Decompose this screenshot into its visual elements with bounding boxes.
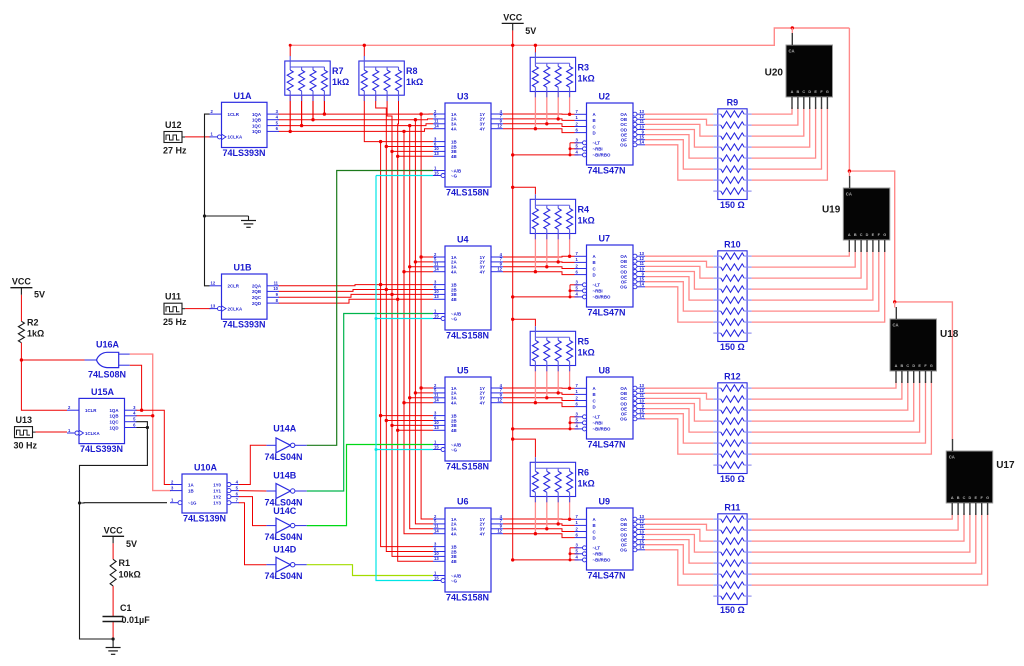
node B1 U3 tap bbox=[379, 140, 382, 143]
wire cyan ~G vertical bbox=[376, 176, 433, 581]
resistor pack R7 1k bbox=[285, 56, 349, 101]
svg-text:B: B bbox=[593, 523, 596, 528]
node B1 branch U5 bbox=[379, 414, 382, 417]
svg-text:~LT: ~LT bbox=[593, 415, 601, 420]
svg-text:74LS04N: 74LS04N bbox=[265, 532, 303, 542]
svg-text:4A: 4A bbox=[451, 532, 457, 537]
wire U8-R12 OD bbox=[645, 404, 713, 422]
svg-text:~BI/RBO: ~BI/RBO bbox=[593, 153, 612, 158]
svg-text:1: 1 bbox=[211, 132, 214, 137]
node R6 pin4 bbox=[568, 518, 571, 521]
svg-text:1kΩ: 1kΩ bbox=[578, 73, 595, 83]
wire U1A 1CLR net bbox=[205, 114, 210, 286]
node VCC tap bbox=[511, 44, 514, 47]
node R4 pin4 bbox=[568, 255, 571, 258]
svg-text:CA: CA bbox=[846, 192, 852, 197]
wire rail to R3 bbox=[534, 45, 536, 52]
wire B3 to U3 bbox=[392, 150, 433, 152]
decoder U8 bbox=[575, 366, 646, 450]
wire R5 net row 4 bbox=[503, 403, 575, 407]
wire U9 ~RBI stub bbox=[570, 553, 579, 555]
wire VCC vertical bbox=[512, 45, 514, 560]
wire U20 segment D bbox=[752, 107, 810, 147]
node 1QB tap bbox=[151, 414, 154, 417]
svg-text:5: 5 bbox=[133, 417, 136, 422]
wire U2-R9 OD bbox=[645, 130, 713, 148]
svg-text:U14B: U14B bbox=[273, 471, 297, 481]
svg-text:74LS158N: 74LS158N bbox=[446, 462, 489, 472]
svg-text:E: E bbox=[872, 233, 875, 237]
wire U1B 2QD to U4 4B bbox=[279, 299, 434, 303]
wire R6 pin4 drop bbox=[569, 497, 571, 520]
svg-text:13: 13 bbox=[434, 556, 439, 561]
wire U7-R10 OB bbox=[645, 261, 713, 267]
resistor pack R10 150 bbox=[713, 239, 751, 351]
wire R4 net row 3 bbox=[503, 267, 575, 269]
node VCC branch R5 bbox=[511, 318, 514, 321]
wire R4 pin3 drop bbox=[557, 234, 559, 262]
wire U8-R12 OF bbox=[645, 414, 713, 443]
wire R3 net row 3 bbox=[503, 124, 575, 127]
svg-text:~BI/RBO: ~BI/RBO bbox=[593, 427, 612, 432]
svg-text:6: 6 bbox=[576, 401, 579, 406]
wire U18 segment E bbox=[752, 381, 920, 432]
svg-text:OG: OG bbox=[620, 417, 627, 422]
svg-text:11: 11 bbox=[274, 281, 279, 286]
wire VCC to R4 bbox=[513, 187, 536, 194]
svg-text:B: B bbox=[593, 118, 596, 123]
wire R7 pin3 drop bbox=[312, 96, 314, 120]
wire B1 vertical bbox=[381, 142, 433, 547]
wire U14C out to U5 ~A/B bbox=[307, 445, 433, 526]
node U7 ctrl mid bbox=[569, 289, 572, 292]
svg-text:1: 1 bbox=[576, 520, 579, 525]
wire U19 segment B bbox=[752, 250, 856, 267]
decoder U10A bbox=[170, 463, 239, 524]
node R3 pin1 bbox=[534, 127, 537, 130]
node R6 pin2 bbox=[545, 527, 548, 530]
svg-text:1: 1 bbox=[576, 257, 579, 262]
power VCC mid bbox=[102, 525, 137, 549]
node U9 ctrl mid bbox=[569, 552, 572, 555]
node R7 feed bbox=[289, 44, 292, 47]
wire U8-R12 OG bbox=[645, 419, 713, 454]
svg-text:U7: U7 bbox=[599, 234, 611, 244]
ground near U1B bbox=[241, 216, 256, 227]
svg-text:1QC: 1QC bbox=[252, 123, 262, 128]
node A2 branch U4 bbox=[414, 260, 417, 263]
wire R8 pin4 drop bbox=[397, 96, 400, 157]
wire U8-R12 OE bbox=[645, 409, 713, 433]
svg-text:2QC: 2QC bbox=[252, 295, 262, 300]
svg-text:5V: 5V bbox=[525, 26, 536, 36]
svg-text:1: 1 bbox=[576, 389, 579, 394]
AND gate U16A bbox=[85, 340, 130, 380]
svg-text:E: E bbox=[975, 496, 978, 500]
svg-text:1kΩ: 1kΩ bbox=[406, 77, 423, 87]
wire U19 segment A bbox=[752, 250, 850, 256]
wire cyan to U5 ~G bbox=[376, 449, 433, 451]
svg-text:3: 3 bbox=[133, 405, 136, 410]
node R6 pin3 bbox=[557, 522, 560, 525]
node CA U20 bbox=[791, 26, 794, 29]
svg-text:B: B bbox=[593, 260, 596, 265]
svg-text:B: B bbox=[901, 364, 904, 368]
node R7 pin4 bbox=[323, 112, 326, 115]
svg-text:2: 2 bbox=[576, 121, 579, 126]
node U7 ctrl low bbox=[569, 295, 572, 298]
counter U1A bbox=[210, 91, 280, 158]
wire R6 net row 1 bbox=[503, 518, 575, 520]
wire R1 to C1 bbox=[112, 586, 114, 617]
svg-text:8: 8 bbox=[276, 298, 279, 303]
wire U10A 1Y2 to U14C bbox=[239, 497, 267, 526]
svg-text:1Y2: 1Y2 bbox=[213, 494, 221, 499]
svg-text:U20: U20 bbox=[765, 68, 784, 79]
svg-text:150 Ω: 150 Ω bbox=[720, 200, 745, 210]
wire U18 segment G bbox=[752, 381, 932, 454]
wire A2 to U4 bbox=[415, 261, 433, 263]
node R6 pin1 bbox=[534, 532, 537, 535]
resistor pack R8 1k bbox=[359, 56, 423, 101]
node B1 vertical feed bbox=[379, 283, 382, 286]
clock source U13 30Hz bbox=[14, 415, 38, 451]
clock source U12 27Hz bbox=[163, 120, 187, 156]
wire U15A 1QC black bbox=[136, 422, 148, 428]
svg-text:150 Ω: 150 Ω bbox=[720, 342, 745, 352]
wire U18 segment F bbox=[752, 381, 926, 443]
svg-text:~LT: ~LT bbox=[593, 546, 601, 551]
svg-text:9: 9 bbox=[276, 292, 279, 297]
wire VCC to R5 bbox=[513, 319, 536, 326]
wire U9-R11 OE bbox=[645, 540, 713, 564]
svg-text:B: B bbox=[854, 233, 857, 237]
wire R5 pin1 drop bbox=[534, 366, 536, 403]
wire R3 pin2 drop bbox=[546, 92, 548, 124]
node R4 pin2 bbox=[545, 265, 548, 268]
node A2 vertical tap bbox=[414, 118, 417, 121]
wire rail to R7 bbox=[289, 45, 291, 56]
node VCC branch R6 bbox=[511, 437, 514, 440]
wire U9-R11 OC bbox=[645, 529, 713, 541]
wire U9-R11 OD bbox=[645, 535, 713, 553]
wire A1 to U5 bbox=[421, 387, 433, 389]
svg-text:12: 12 bbox=[497, 124, 502, 129]
svg-text:14: 14 bbox=[639, 545, 644, 550]
svg-text:74LS08N: 74LS08N bbox=[88, 370, 126, 380]
wire R7 pin4 drop bbox=[323, 96, 325, 115]
svg-text:150 Ω: 150 Ω bbox=[720, 474, 745, 484]
decoder U2 bbox=[575, 92, 646, 176]
multiplexer U3 bbox=[433, 92, 503, 198]
svg-text:150 Ω: 150 Ω bbox=[720, 605, 745, 615]
wire U8 control bracket bbox=[569, 417, 571, 429]
svg-text:R11: R11 bbox=[724, 502, 740, 512]
svg-text:A: A bbox=[895, 364, 898, 368]
wire R6 net row 3 bbox=[503, 529, 575, 532]
wire VCC to R6 bbox=[513, 439, 536, 457]
node B4 vertical feed bbox=[396, 298, 399, 301]
svg-text:R1: R1 bbox=[119, 558, 131, 568]
svg-text:~RBI: ~RBI bbox=[593, 552, 603, 557]
wire A3 to U4 bbox=[410, 266, 433, 268]
wire CA stub U18 bbox=[894, 302, 896, 308]
svg-text:U14A: U14A bbox=[273, 424, 297, 434]
counter U1B bbox=[210, 263, 280, 330]
wire U10A 1Y0 to U14A bbox=[239, 445, 267, 484]
svg-text:C: C bbox=[802, 90, 805, 94]
svg-text:15: 15 bbox=[434, 313, 439, 318]
resistor pack R4 1k bbox=[530, 194, 595, 239]
svg-text:U1B: U1B bbox=[234, 263, 253, 273]
svg-text:12: 12 bbox=[497, 398, 502, 403]
wire U19 segment G bbox=[752, 250, 885, 322]
svg-text:74LS139N: 74LS139N bbox=[183, 514, 226, 524]
node R3 pin3 bbox=[557, 117, 560, 120]
node B2 branch U5 bbox=[385, 419, 388, 422]
svg-text:74LS158N: 74LS158N bbox=[446, 188, 489, 198]
svg-text:U16A: U16A bbox=[96, 340, 120, 350]
svg-text:R4: R4 bbox=[578, 204, 590, 214]
wire R5 pin4 drop bbox=[569, 366, 571, 389]
wire R2 net to U16A out bbox=[21, 359, 84, 361]
node A1 branch U4 bbox=[419, 255, 422, 258]
svg-text:2QB: 2QB bbox=[252, 289, 261, 294]
svg-text:1QA: 1QA bbox=[252, 112, 262, 117]
svg-text:1: 1 bbox=[171, 498, 174, 503]
wire U17 segment E bbox=[752, 513, 976, 563]
svg-text:1Y1: 1Y1 bbox=[213, 488, 221, 493]
svg-text:1Y3: 1Y3 bbox=[213, 501, 221, 506]
svg-text:14: 14 bbox=[434, 529, 439, 534]
svg-text:U13: U13 bbox=[16, 415, 33, 425]
svg-text:6: 6 bbox=[576, 532, 579, 537]
svg-text:1QC: 1QC bbox=[109, 420, 119, 425]
wire A4 to U5 bbox=[404, 402, 433, 404]
svg-text:G: G bbox=[883, 233, 886, 237]
svg-text:B: B bbox=[957, 496, 960, 500]
node CLR gnd tap bbox=[203, 214, 206, 217]
svg-text:13: 13 bbox=[211, 303, 216, 308]
node ~1G tap bbox=[78, 501, 81, 504]
svg-text:2: 2 bbox=[576, 263, 579, 268]
node cyan U5 bbox=[375, 448, 378, 451]
svg-text:7: 7 bbox=[576, 514, 579, 519]
node A3 branch U4 bbox=[408, 265, 411, 268]
node A4 branch U4 bbox=[402, 270, 405, 273]
svg-text:1kΩ: 1kΩ bbox=[578, 215, 595, 225]
wire R3 pin3 drop bbox=[557, 92, 559, 119]
svg-text:14: 14 bbox=[639, 282, 644, 287]
svg-text:14: 14 bbox=[434, 398, 439, 403]
wire U1B 2QC to U4 3B bbox=[279, 294, 434, 297]
wire U19 segment D bbox=[752, 250, 867, 289]
svg-text:6: 6 bbox=[576, 127, 579, 132]
wire U1B 2QA to U4 1B bbox=[279, 285, 434, 286]
svg-text:~G: ~G bbox=[451, 447, 458, 452]
svg-text:2: 2 bbox=[576, 526, 579, 531]
node R3 pin4 bbox=[568, 113, 571, 116]
svg-text:2: 2 bbox=[68, 405, 71, 410]
svg-text:14: 14 bbox=[639, 140, 644, 145]
wire U7 ~BI/RBO stub bbox=[570, 296, 579, 298]
wire U20 segment B bbox=[752, 107, 798, 125]
svg-text:D: D bbox=[593, 535, 596, 540]
svg-text:3: 3 bbox=[576, 138, 579, 143]
wire R8 pin2 drop bbox=[376, 96, 387, 147]
svg-text:2QA: 2QA bbox=[252, 284, 262, 289]
svg-text:R9: R9 bbox=[727, 97, 739, 107]
wire B2 vertical bbox=[386, 147, 433, 552]
wire U19 segment C bbox=[752, 250, 862, 278]
node 1QA tap bbox=[140, 409, 143, 412]
capacitor C1 0.01uF bbox=[103, 603, 151, 625]
wire U17 segment A bbox=[752, 513, 953, 519]
svg-text:74LS47N: 74LS47N bbox=[588, 571, 626, 581]
svg-text:G: G bbox=[986, 496, 989, 500]
svg-text:R12: R12 bbox=[724, 371, 741, 381]
multiplexer U6 bbox=[433, 497, 503, 603]
wire B1 to U5 bbox=[381, 415, 433, 417]
svg-text:B: B bbox=[797, 90, 800, 94]
wire U9 control bracket bbox=[569, 548, 571, 560]
svg-text:D: D bbox=[808, 90, 811, 94]
ground below C1 bbox=[106, 639, 121, 654]
svg-text:D: D bbox=[593, 404, 596, 409]
wire U20 segment C bbox=[752, 107, 804, 136]
wire U2 control bracket bbox=[569, 143, 571, 155]
wire VCC to U8 controls bbox=[513, 428, 570, 430]
svg-text:1kΩ: 1kΩ bbox=[332, 77, 349, 87]
svg-text:4B: 4B bbox=[451, 559, 457, 564]
wire U19 segment F bbox=[752, 250, 879, 311]
svg-text:5V: 5V bbox=[34, 290, 45, 300]
svg-text:U5: U5 bbox=[457, 366, 469, 376]
svg-text:~BI/RBO: ~BI/RBO bbox=[593, 558, 612, 563]
node B2 U3 tap bbox=[385, 145, 388, 148]
wire C1 to gnd bbox=[112, 622, 114, 640]
svg-text:15: 15 bbox=[434, 170, 439, 175]
svg-text:1QD: 1QD bbox=[109, 425, 118, 430]
svg-text:VCC: VCC bbox=[104, 525, 124, 535]
svg-text:5: 5 bbox=[576, 144, 579, 149]
svg-text:4Y: 4Y bbox=[480, 127, 485, 132]
wire R4 pin2 drop bbox=[546, 234, 548, 267]
svg-text:R7: R7 bbox=[332, 66, 344, 76]
wire VCC top stem bbox=[512, 30, 514, 45]
wire U7-R10 OE bbox=[645, 277, 713, 301]
svg-text:B: B bbox=[593, 392, 596, 397]
node R4 pin3 bbox=[557, 260, 560, 263]
svg-text:1CLR: 1CLR bbox=[85, 408, 97, 413]
svg-text:13: 13 bbox=[434, 151, 439, 156]
svg-text:C: C bbox=[963, 496, 966, 500]
wire U16A in1 from 1QB net bbox=[130, 354, 171, 491]
wire R3 pin1 drop bbox=[534, 92, 536, 129]
svg-text:U6: U6 bbox=[457, 497, 469, 507]
svg-text:R3: R3 bbox=[578, 62, 590, 72]
wire VCC to U2 controls bbox=[513, 154, 570, 156]
svg-text:OG: OG bbox=[620, 285, 627, 290]
svg-text:~RBI: ~RBI bbox=[593, 289, 603, 294]
wire CA chain U18-U17 bbox=[895, 302, 953, 440]
wire CA chain U20-U19 bbox=[849, 28, 894, 302]
power VCC top bbox=[502, 12, 537, 36]
wire U8-R12 OA bbox=[645, 387, 713, 389]
svg-text:12: 12 bbox=[497, 529, 502, 534]
svg-text:~1G: ~1G bbox=[188, 501, 197, 506]
node VCC branch U2 bbox=[511, 153, 514, 156]
multiplexer U5 bbox=[433, 366, 503, 472]
svg-text:74LS47N: 74LS47N bbox=[588, 308, 626, 318]
wire CA stub U19 bbox=[848, 171, 850, 176]
svg-text:U3: U3 bbox=[457, 92, 469, 102]
wire U2 ~LT stub bbox=[570, 142, 579, 144]
svg-text:27 Hz: 27 Hz bbox=[163, 146, 187, 156]
display U20 bbox=[765, 33, 833, 109]
node VCC branch U8 bbox=[511, 427, 514, 430]
svg-text:5: 5 bbox=[576, 418, 579, 423]
svg-text:4: 4 bbox=[133, 411, 136, 416]
wire VCC left to R2 bbox=[20, 295, 22, 322]
wire R3 pin4 drop bbox=[569, 92, 571, 115]
svg-text:U1A: U1A bbox=[234, 91, 253, 101]
svg-text:74LS393N: 74LS393N bbox=[223, 320, 266, 330]
svg-text:4B: 4B bbox=[451, 154, 457, 159]
display U18 bbox=[890, 307, 959, 383]
svg-text:2: 2 bbox=[576, 395, 579, 400]
svg-text:1CLR: 1CLR bbox=[228, 112, 240, 117]
node A3 branch U5 bbox=[408, 396, 411, 399]
wire U11 to U1B clk bbox=[185, 308, 211, 310]
wire B2 to U3 bbox=[386, 146, 433, 148]
svg-text:A: A bbox=[791, 90, 794, 94]
svg-text:G: G bbox=[930, 364, 933, 368]
resistor pack R6 1k bbox=[530, 457, 595, 502]
wire U14B out to U4 ~A/B bbox=[307, 314, 433, 492]
node R5 pin2 bbox=[545, 396, 548, 399]
svg-text:C1: C1 bbox=[120, 603, 132, 613]
svg-text:1kΩ: 1kΩ bbox=[578, 347, 595, 357]
wire U17 segment D bbox=[752, 513, 970, 552]
svg-text:4Y: 4Y bbox=[480, 532, 485, 537]
svg-text:7: 7 bbox=[576, 251, 579, 256]
svg-text:7: 7 bbox=[236, 498, 239, 503]
node B3 vertical feed bbox=[390, 293, 393, 296]
resistor pack R9 150 bbox=[713, 97, 751, 210]
wire R4 pin4 drop bbox=[569, 234, 571, 257]
svg-text:C: C bbox=[906, 364, 909, 368]
inverter U14A bbox=[265, 424, 307, 462]
wire VCC to U7 controls bbox=[513, 296, 570, 298]
wire U20 segment A bbox=[752, 107, 792, 114]
node VCC branch R4 bbox=[511, 186, 514, 189]
svg-text:1kΩ: 1kΩ bbox=[578, 478, 595, 488]
svg-text:~BI/RBO: ~BI/RBO bbox=[593, 295, 612, 300]
wire A4 vertical bbox=[404, 131, 433, 533]
svg-text:U19: U19 bbox=[822, 205, 841, 216]
svg-text:D: D bbox=[912, 364, 915, 368]
wire U18 segment B bbox=[752, 381, 902, 399]
node U8 ctrl mid bbox=[569, 421, 572, 424]
svg-text:1Y0: 1Y0 bbox=[213, 482, 221, 487]
svg-text:1CLKA: 1CLKA bbox=[228, 135, 243, 140]
inverter U14B bbox=[265, 471, 307, 508]
multiplexer U4 bbox=[433, 235, 503, 341]
wire rail to R8 bbox=[363, 45, 365, 56]
svg-text:U12: U12 bbox=[165, 120, 182, 130]
resistor pack R12 150 bbox=[713, 371, 751, 484]
